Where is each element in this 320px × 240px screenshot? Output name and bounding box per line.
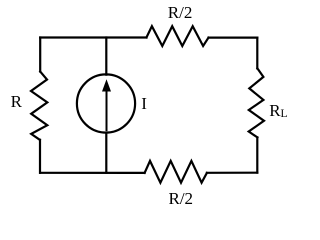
- wire bottom-right horizontal: [207, 172, 257, 174]
- resistor R: [31, 72, 47, 140]
- label R/2 top: [168, 4, 193, 21]
- label I: [141, 95, 147, 112]
- wire top-left horizontal: [40, 36, 146, 38]
- wire right vertical upper: [256, 38, 258, 69]
- wire middle vertical lower: [105, 133, 107, 173]
- label R/2 bottom: [169, 190, 194, 207]
- label R: [11, 93, 22, 110]
- wire middle vertical upper: [105, 38, 107, 75]
- wire right vertical lower: [256, 137, 258, 172]
- resistor R/2 top: [147, 26, 209, 46]
- wire bottom-left horizontal: [40, 172, 144, 174]
- current source arrow: [102, 79, 111, 130]
- wire top-right horizontal: [209, 36, 258, 38]
- wire left vertical upper: [39, 38, 41, 72]
- wire left vertical lower: [39, 140, 41, 173]
- label RL: [269, 102, 287, 120]
- resistor R/2 bottom: [145, 161, 207, 183]
- current source U1 circle: [77, 74, 135, 132]
- resistor RL: [249, 68, 264, 137]
